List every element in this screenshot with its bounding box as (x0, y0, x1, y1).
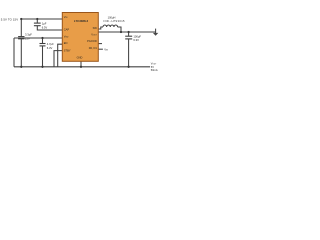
wire VIN2 horizontal (14, 37, 62, 39)
svg-text:STBY: STBY (64, 48, 71, 52)
svg-text:GND: GND (77, 56, 83, 60)
svg-text:CAP: CAP (64, 27, 70, 31)
svg-text:25V: 25V (25, 36, 30, 40)
node dot rail GND (80, 66, 82, 68)
wire EN stub to ground (58, 44, 63, 67)
node dot inductor joins VOUT line (120, 31, 122, 33)
capacitor C3 top leg (42, 38, 44, 43)
svg-text:1µF: 1µF (42, 22, 47, 26)
node dot 4.7uF tap on VIN2 line (41, 37, 43, 39)
capacitor C2 bottom leg to CAP pin (37, 26, 62, 30)
capacitor C1 bottom leg (20, 39, 22, 67)
svg-text:50mA: 50mA (151, 68, 158, 72)
wire input rail VIN (20, 18, 62, 20)
svg-text:100µF: 100µF (133, 34, 141, 38)
wire left vertical to ground rail (13, 38, 15, 67)
capacitor C2 top leg (36, 19, 38, 23)
wire SW pin jog up to inductor (98, 27, 103, 29)
svg-text:6.3V: 6.3V (133, 38, 139, 42)
wire chip GND drop (80, 61, 82, 67)
svg-text:SW: SW (93, 26, 98, 30)
capacitor C4 plates (125, 35, 132, 37)
svg-text:PGOOD: PGOOD (87, 39, 97, 43)
svg-text:6.3V: 6.3V (42, 25, 48, 29)
svg-text:4.7µF: 4.7µF (47, 42, 54, 46)
capacitor C1 plates (18, 36, 24, 38)
svg-text:6.3V: 6.3V (47, 46, 53, 50)
wire VOUT line (98, 31, 155, 33)
capacitor C2 plates (34, 22, 41, 24)
node dot 1uF tap (36, 18, 38, 20)
svg-text:3.3µF: 3.3µF (25, 33, 32, 37)
wire inductor end corner down to VOUT line (118, 27, 121, 32)
capacitor C3 bottom leg (42, 46, 44, 67)
node dot input cap tap (20, 18, 22, 20)
wire STBY stub to ground (54, 51, 62, 67)
svg-text:100µH: 100µH (108, 16, 116, 20)
capacitor C3 plates (40, 43, 46, 45)
node dot rail C3 (41, 66, 43, 68)
capacitor C4 top leg (128, 32, 130, 36)
svg-text:IND.-LPS3015: IND.-LPS3015 (104, 19, 126, 23)
svg-text:D0, D1: D0, D1 (89, 46, 98, 50)
capacitor C4 bottom leg (128, 39, 130, 67)
wire D0 D1 stub (98, 48, 103, 50)
svg-text:5.5V TO 15V: 5.5V TO 15V (1, 17, 18, 21)
wire ground rail (14, 66, 150, 68)
node dot output cap tap (127, 31, 129, 33)
wire PGOOD stub (98, 43, 102, 45)
capacitor C1 top leg (20, 19, 22, 36)
node dot rail C1 (20, 66, 22, 68)
svg-text:LTC3388-3: LTC3388-3 (74, 19, 89, 23)
IC U1 LTC3388-3 body (62, 13, 98, 62)
output arrow at VOUT line end (153, 29, 158, 36)
node dot rail C4 (127, 66, 129, 68)
inductor L1 coil (103, 25, 118, 27)
svg-text:EN: EN (64, 41, 68, 45)
